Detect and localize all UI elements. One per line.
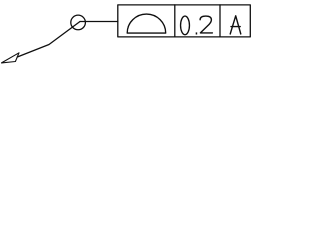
feature control frame outer box [118, 5, 251, 37]
leader horizontal segment [80, 21, 118, 23]
digit 0 of tolerance 0.2 [181, 16, 190, 35]
digit 2 of tolerance 0.2 [200, 16, 212, 33]
all-around circle [71, 15, 86, 30]
frame divider 1 [174, 5, 176, 37]
frame divider 2 [219, 5, 221, 37]
decimal point of 0.2 [196, 32, 198, 34]
leader diagonal segment [17, 22, 80, 58]
open arrowhead [2, 53, 20, 63]
datum letter A [230, 16, 241, 34]
profile of a surface symbol (semicircle dome) [127, 14, 166, 33]
